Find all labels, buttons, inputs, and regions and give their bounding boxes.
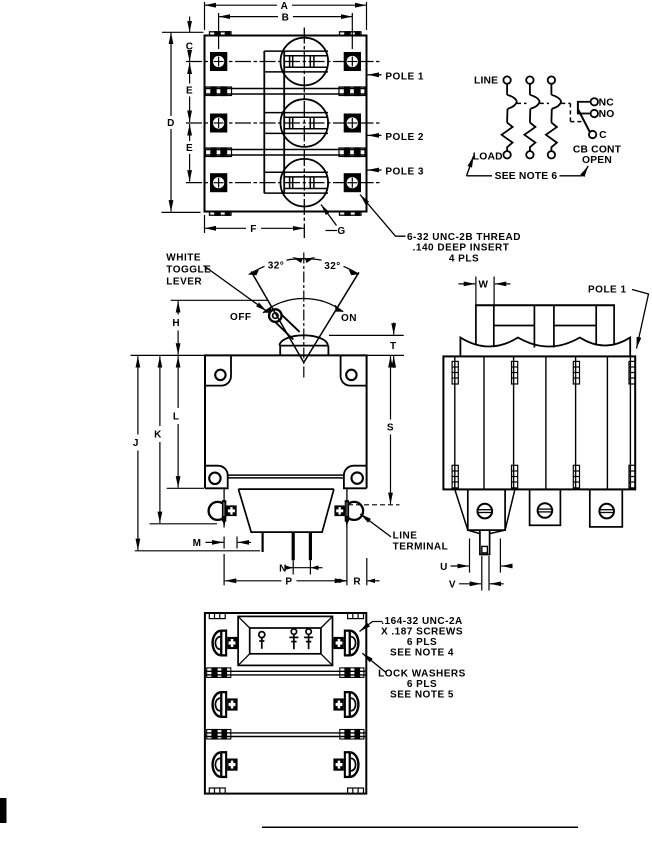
divider 1: [205, 671, 366, 675]
toggle lever note leader: [204, 266, 267, 312]
svg-text:D: D: [167, 118, 175, 129]
svg-text:32°: 32°: [324, 261, 341, 272]
bottom view corner tabs bottom: [209, 788, 363, 794]
svg-text:CB CONT: CB CONT: [573, 144, 622, 155]
svg-text:POLE 1: POLE 1: [385, 71, 424, 82]
screw row1 left: [213, 630, 238, 657]
POLE 3 label: [368, 169, 382, 171]
svg-text:LINE: LINE: [474, 75, 498, 86]
pole 2 circle: [281, 99, 329, 147]
svg-text:4 PLS: 4 PLS: [449, 253, 479, 264]
svg-text:POLE 1: POLE 1: [588, 285, 627, 296]
dimension J: [135, 550, 260, 552]
terminal block pole 2: [530, 489, 561, 525]
toggle tie bar: [475, 304, 615, 306]
top view pole centerlines and center vertical: [186, 28, 381, 239]
svg-text:SEE NOTE 5: SEE NOTE 5: [390, 689, 454, 700]
toggle travel V left line: [251, 272, 304, 363]
section boundary 1 left barrier tab: [206, 87, 232, 96]
svg-text:N: N: [279, 563, 287, 574]
svg-text:A: A: [281, 1, 289, 12]
terminal screw pole 3: [599, 504, 614, 519]
svg-text:6 PLS: 6 PLS: [407, 679, 437, 690]
dimension F: [205, 215, 305, 233]
pole 2 slot band: [264, 113, 328, 134]
toggle post pole 3: [596, 305, 614, 345]
toggle post pole 1: [476, 305, 494, 345]
left terminal prong: [262, 532, 264, 552]
aux common blade: [578, 101, 590, 131]
section boundary 1 lines: [205, 89, 367, 95]
svg-text:E: E: [186, 143, 193, 154]
right line terminal screw: [334, 500, 363, 521]
svg-text:G: G: [337, 226, 345, 237]
pole 1 centerline: [186, 61, 381, 63]
svg-text:S: S: [387, 423, 394, 434]
toggle centerline: [303, 253, 305, 379]
trip tie bar (dashed): [517, 103, 583, 121]
svg-text:W: W: [479, 280, 489, 291]
middle terminal prong: [292, 532, 295, 560]
angular dimension arc: [249, 259, 359, 275]
svg-text:R: R: [353, 577, 361, 588]
aux contact NO: [578, 110, 598, 117]
right terminal prong: [309, 532, 312, 560]
svg-text:WHITE: WHITE: [166, 253, 201, 264]
top view center plate verticals: [264, 51, 284, 193]
bottom view body outline: [205, 613, 366, 794]
dimension U: [451, 539, 512, 573]
POLE 1 label: [368, 74, 382, 76]
bottom view corner tabs top: [209, 613, 363, 619]
dimension W: [459, 277, 511, 305]
left terminal centerline with arrow: [223, 488, 225, 527]
aux contact NC: [578, 98, 598, 105]
pole 2 branch: [524, 76, 539, 158]
svg-text:.164-32 UNC-2A: .164-32 UNC-2A: [381, 616, 462, 627]
section boundary 2 right barrier tab: [339, 148, 365, 157]
svg-text:OFF: OFF: [230, 312, 252, 323]
screw row3 right: [333, 751, 358, 778]
pole 3 branch: [546, 76, 561, 158]
mounting insert screw bottom-right: [344, 173, 361, 192]
scalloped bezel strip: [460, 338, 630, 357]
terminal screw pole 2: [538, 503, 553, 518]
toggle sweep arc: [263, 298, 343, 312]
corner tab top-right: [340, 32, 362, 36]
nameplate recess outer: [238, 616, 332, 665]
right terminal centerline with arrow: [346, 488, 348, 527]
svg-text:6-32 UNC-2B THREAD: 6-32 UNC-2B THREAD: [407, 232, 521, 243]
dimension V: [459, 556, 504, 591]
top view body outline: [205, 36, 367, 212]
svg-text:P: P: [285, 577, 292, 588]
footer rule: [262, 826, 578, 828]
terminal block pole 3: [590, 489, 623, 527]
pole 1 slot band: [264, 51, 328, 72]
pole 3 circle: [281, 159, 329, 207]
top-left mounting ear: [205, 355, 231, 385]
pole 1 terminal shroud: [455, 489, 515, 533]
note leader to aux contacts: [560, 166, 589, 176]
dimension D: [162, 33, 201, 213]
nameplate symbol 3: [304, 629, 313, 649]
svg-text:E: E: [186, 86, 193, 97]
svg-text:T: T: [390, 341, 397, 352]
dimension M: [206, 537, 252, 549]
dimension K: [150, 523, 218, 525]
aux contact C: [589, 131, 596, 138]
top view pole circles: [281, 38, 329, 207]
line terminal leader: [360, 514, 391, 537]
svg-text:ON: ON: [341, 313, 357, 324]
nameplate symbol 1: [259, 632, 265, 649]
note leader to LOAD: [467, 156, 493, 176]
pole 3 slot band: [264, 172, 328, 193]
front body right edge: [366, 355, 368, 488]
bottom-right mounting ear: [344, 466, 367, 489]
screw row1 right: [333, 630, 358, 657]
mounting insert screw bottom-left: [210, 173, 227, 192]
front body left edge: [204, 355, 206, 488]
svg-text:B: B: [282, 12, 290, 23]
thread note leader: [360, 195, 406, 237]
svg-text:H: H: [172, 318, 180, 329]
lock washers leader: [362, 653, 386, 672]
svg-text:6 PLS: 6 PLS: [407, 637, 437, 648]
dimension E lower: [189, 124, 191, 182]
svg-text:C: C: [186, 41, 194, 52]
svg-text:OPEN: OPEN: [582, 155, 612, 166]
dimension R: [339, 558, 380, 585]
mounting insert screw top-left: [210, 52, 227, 71]
svg-text:POLE 2: POLE 2: [385, 132, 424, 143]
vertical centerline: [303, 28, 305, 239]
section boundary 1 right barrier tab: [339, 87, 365, 96]
divider 1 left hatch tab: [207, 668, 231, 678]
side body outline: [443, 356, 635, 489]
screw row3 left: [213, 751, 238, 778]
bottom-left mounting ear: [205, 466, 228, 489]
svg-text:K: K: [154, 429, 162, 440]
dimension T: [329, 334, 404, 336]
recess corner miters: [238, 616, 332, 665]
divider 2: [205, 733, 366, 737]
dimension A: [205, 2, 367, 30]
svg-text:POLE 3: POLE 3: [385, 167, 424, 178]
svg-text:SEE NOTE 4: SEE NOTE 4: [390, 647, 454, 658]
divider 2 left hatch tab: [207, 730, 231, 740]
screw row2 left: [213, 691, 238, 718]
POLE 2 label: [368, 134, 382, 136]
svg-text:LOAD: LOAD: [473, 151, 503, 162]
divider 1 right hatch tab: [340, 668, 364, 678]
footer page tab: [0, 798, 7, 823]
pole 3 centerline: [186, 182, 381, 184]
svg-text:NC: NC: [599, 97, 615, 108]
dimension S: [348, 504, 400, 506]
svg-text:C: C: [599, 130, 607, 141]
toggle post pole 2: [534, 305, 554, 347]
barrier hatch boxes top: [452, 361, 635, 384]
toggle boss dome: [280, 335, 328, 345]
svg-text:U: U: [440, 562, 448, 573]
svg-text:LOCK WASHERS: LOCK WASHERS: [378, 669, 466, 680]
screw row2 right: [333, 691, 358, 718]
corner tab bottom-right: [340, 211, 362, 215]
screws note leader: [360, 622, 383, 632]
dimension L: [167, 487, 204, 489]
terminal block pole 1: [468, 489, 505, 530]
pole 2 centerline: [186, 122, 381, 124]
corner tab top-left: [210, 32, 232, 36]
divider 2 right hatch tab: [340, 730, 364, 740]
pole 1 branch: terminals, switch blade, coil: [502, 76, 517, 158]
toggle lever arm: [269, 309, 300, 339]
base trapezoid: [238, 489, 334, 532]
barrier hatch boxes bottom: [452, 465, 635, 488]
nameplate symbol 2: [289, 629, 298, 649]
svg-text:X .187 SCREWS: X .187 SCREWS: [381, 627, 463, 638]
mounting insert screw mid-left: [210, 114, 227, 133]
svg-text:L: L: [173, 411, 180, 422]
pole 1 circle: [281, 38, 329, 86]
svg-text:NO: NO: [599, 109, 615, 120]
svg-text:J: J: [133, 438, 139, 449]
svg-text:.140 DEEP INSERT: .140 DEEP INSERT: [413, 243, 510, 254]
pole 1 terminal lug: [480, 531, 490, 555]
angular dim arrowheads: [249, 270, 259, 276]
svg-text:F: F: [250, 224, 257, 235]
svg-text:LEVER: LEVER: [166, 277, 202, 288]
mounting insert screw mid-right: [344, 114, 361, 133]
dimension C: [162, 17, 204, 62]
dimension P: [224, 527, 347, 585]
section boundary 2 lines: [205, 150, 367, 156]
corner tab bottom-left: [210, 211, 232, 215]
top-right mounting ear: [341, 355, 367, 385]
mounting insert screw top-right: [344, 52, 361, 71]
dimension B: [219, 13, 353, 49]
label G with leader: [326, 230, 338, 232]
svg-text:SEE NOTE 6: SEE NOTE 6: [495, 171, 558, 182]
side inner walls: [455, 356, 631, 489]
svg-text:V: V: [449, 580, 456, 591]
svg-text:M: M: [193, 538, 202, 549]
section boundary 2 left barrier tab: [206, 148, 232, 157]
svg-text:TERMINAL: TERMINAL: [393, 542, 449, 553]
front body top edge with extensions: [131, 354, 205, 356]
dimension H: [171, 299, 268, 301]
svg-text:32°: 32°: [268, 260, 285, 271]
toggle travel V right line: [304, 272, 359, 362]
dimension N: [289, 560, 323, 574]
terminal screw pole 1: [478, 504, 493, 519]
dimension E upper: [189, 63, 191, 123]
toggle bushing: [280, 346, 329, 356]
nameplate recess inner: [250, 628, 321, 654]
bottom recessed edge: [228, 475, 344, 478]
svg-text:LINE: LINE: [393, 531, 418, 542]
left line terminal screw: [209, 500, 237, 521]
